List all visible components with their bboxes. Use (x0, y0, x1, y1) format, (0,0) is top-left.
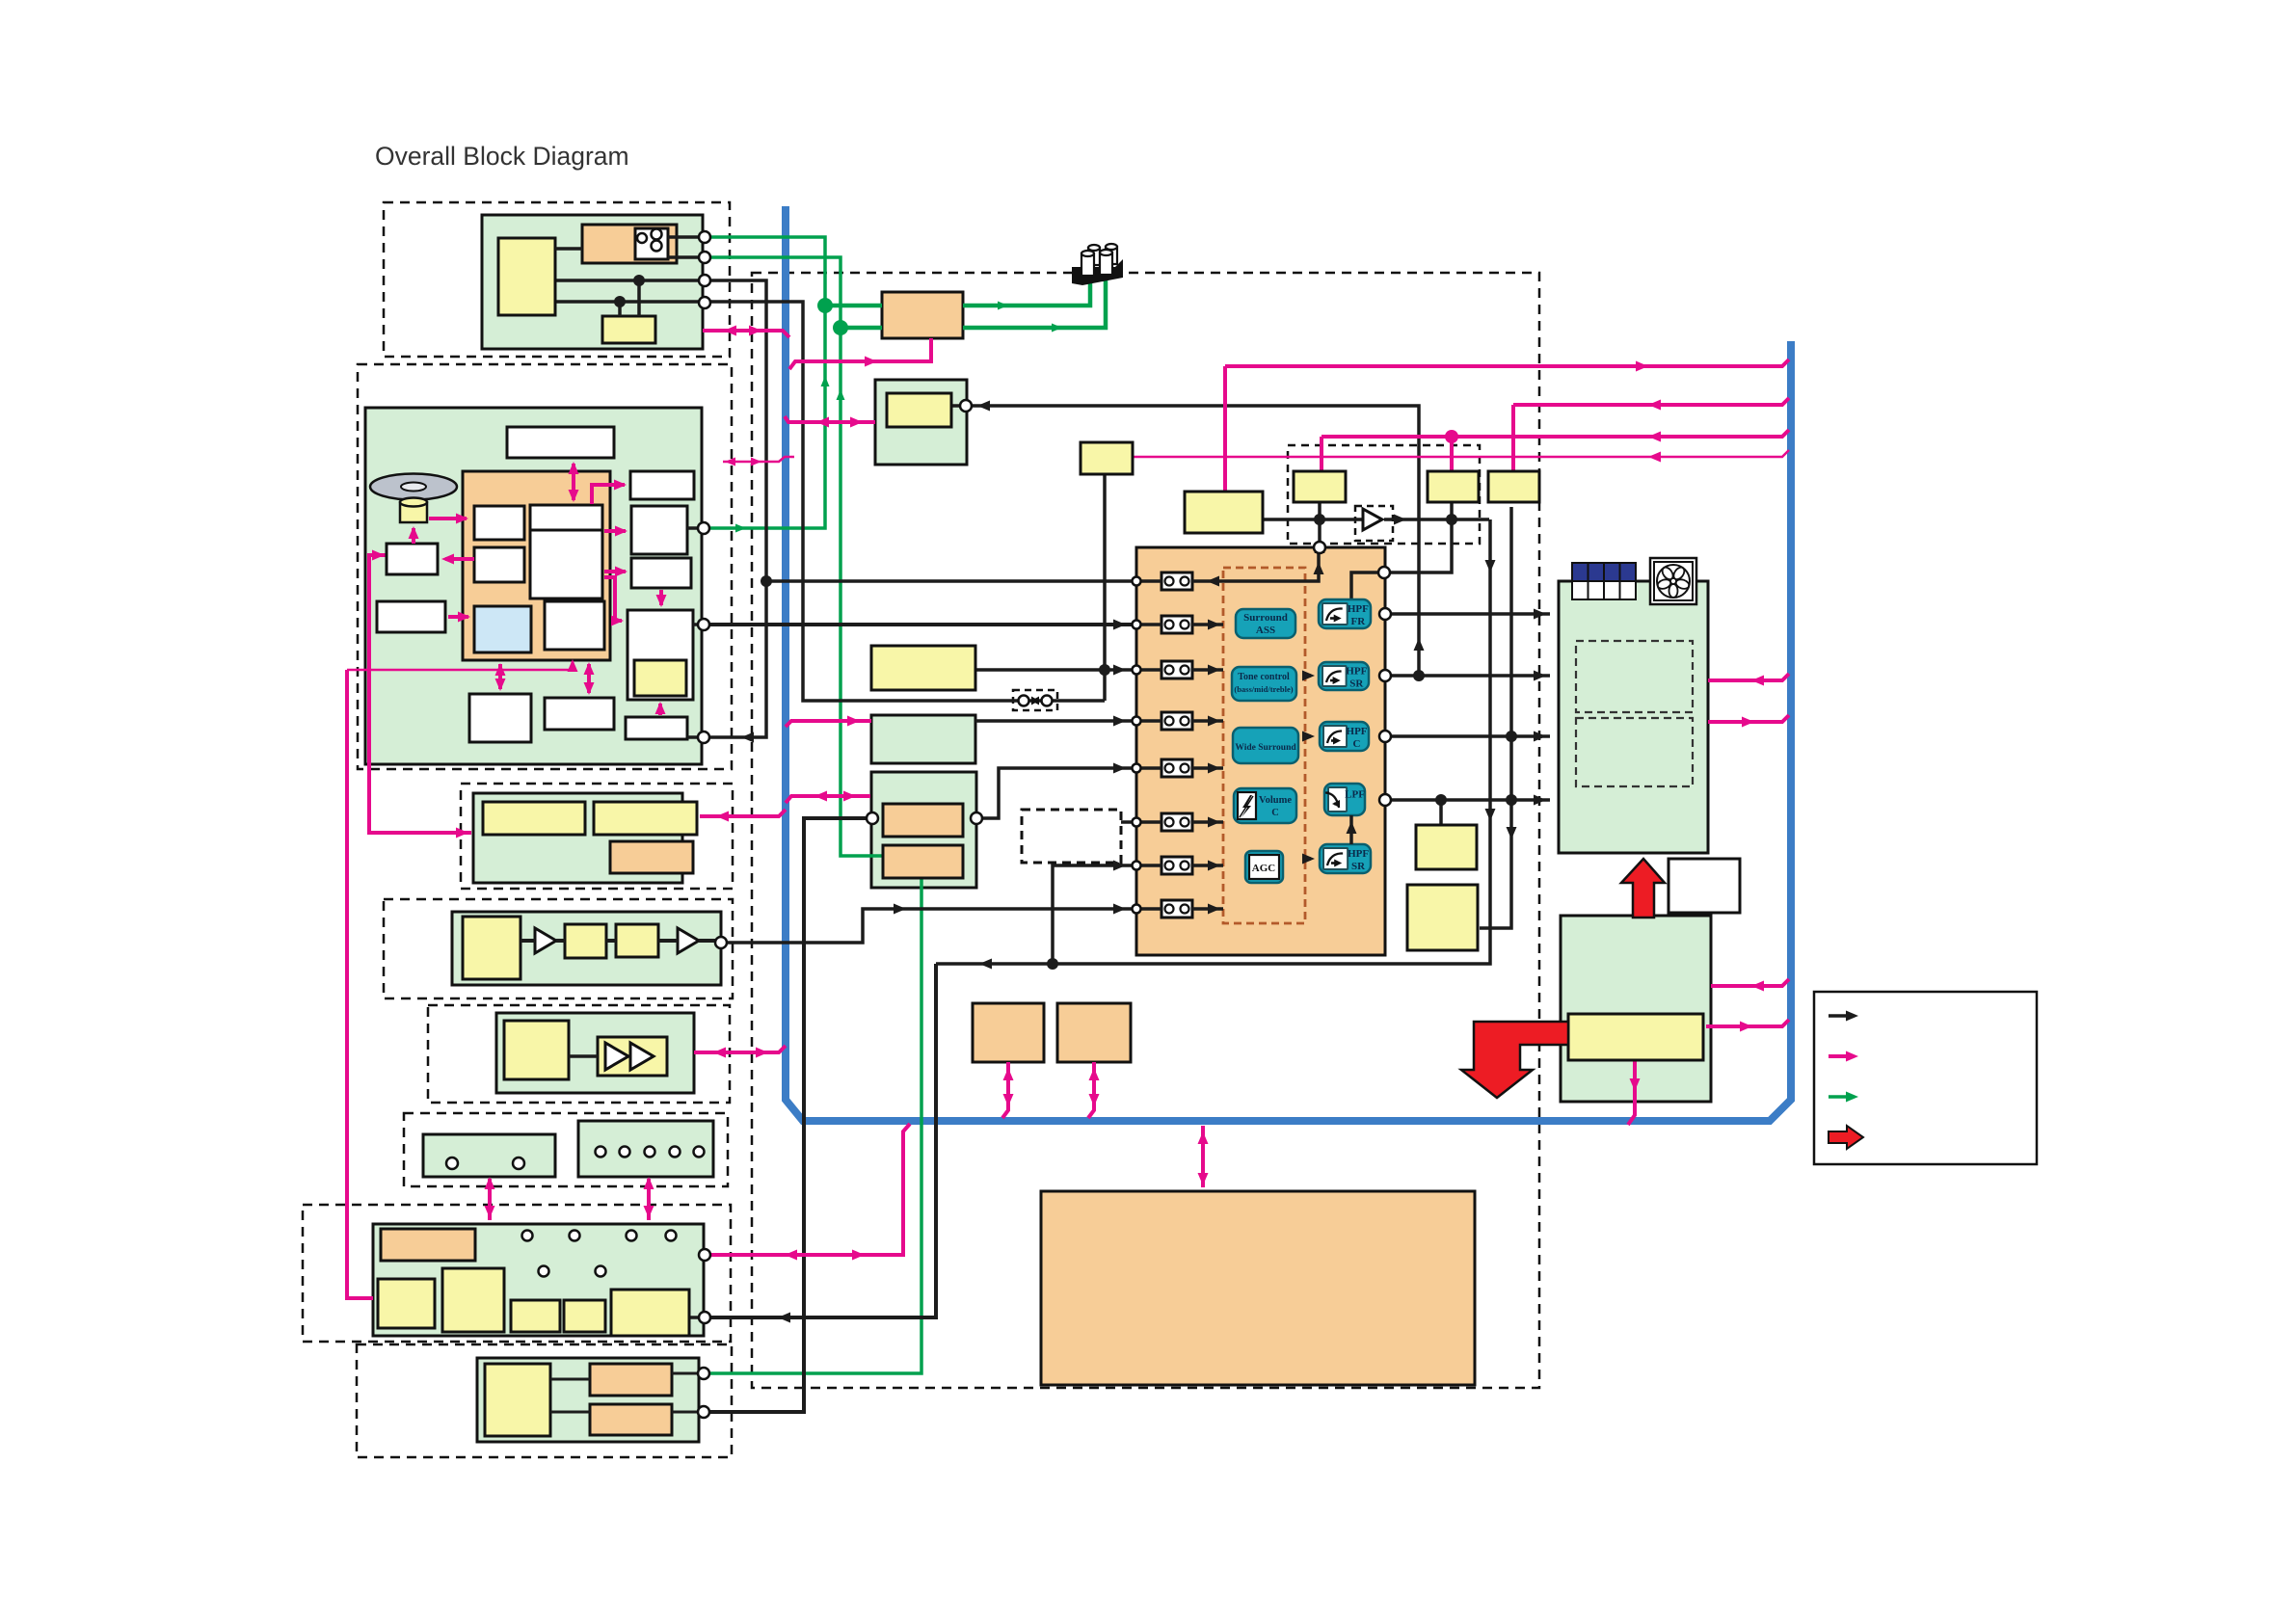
dashed box: DSP internal functions (brown) (1223, 568, 1305, 923)
wire: pink mute control drop 1 (1320, 437, 1323, 471)
box: headphone jack yellow (887, 393, 951, 427)
junction dots (633, 275, 645, 286)
wire: pink bus tap tuner A (786, 721, 871, 727)
arrow: pink decoder to audio DAC elbow (592, 485, 625, 504)
dashed box: amp channel 1 (1576, 641, 1693, 712)
wire: relay to connector 1 (668, 235, 703, 239)
box: standby transformer (yellow) (498, 238, 555, 315)
box: standby relay module (orange) (582, 225, 677, 263)
box: system micom (yellow) (1081, 442, 1133, 474)
wire: black option box row (1121, 820, 1132, 824)
arrowhead: black DVD row into DSP (1113, 620, 1126, 630)
wire: rear jack to conn 1 (672, 1372, 699, 1375)
panel: tuner pack A (green) (871, 715, 975, 763)
panel: tuner pack B (green) (871, 772, 976, 888)
jack: key board B buttons (596, 1147, 606, 1157)
wire: black headphone send line (972, 406, 1419, 676)
wire: black record-out row to DSP (766, 579, 1132, 583)
box: analog in orange (610, 841, 693, 873)
filter: HPF SR 2 (1320, 844, 1371, 873)
box: RF amp (blue) (474, 606, 531, 652)
jack: DSP input row 1 (1161, 572, 1192, 590)
icon: speaker terminal block (1072, 259, 1123, 285)
arrowhead: pink relay control (1648, 400, 1661, 411)
wire: black standby out 1 vertical (555, 280, 766, 737)
wire: pink relay control line (1513, 398, 1789, 405)
arrowhead: black into headphone jack board (977, 401, 990, 412)
wires: CD DSP chain (521, 939, 535, 943)
box: spindle motor (white) (545, 698, 614, 730)
wire: DVD audio DAC stub (687, 526, 698, 530)
wire: system control bus (blue) (786, 206, 1791, 1121)
wire: pink system micom top line (1225, 359, 1789, 366)
box: relay contact detail (white) (635, 228, 668, 259)
arrow: pink pickup to servo (429, 517, 467, 520)
legend: green arrow (1829, 1095, 1851, 1099)
panel: option module A (orange) (973, 1003, 1044, 1062)
wire: black LPF to sub out box (1439, 800, 1443, 825)
box: AV output inner (yellow) (634, 660, 686, 696)
box: tuner pack orange 2 (883, 845, 963, 878)
box: tray control (white) (377, 601, 445, 632)
arrowhead: black tuner B row into DSP (1113, 763, 1126, 774)
arrow: pink decoder to video enc (604, 570, 626, 573)
arrowheads: black feedback line (979, 959, 992, 970)
icon: spindle cylinder (400, 502, 427, 522)
block: Tone control (teal) (1232, 667, 1296, 701)
wire: relay to connector 2 (668, 255, 703, 259)
op-amp: headphone buffer 1 (605, 1043, 628, 1070)
panel: power supply board (green) (1561, 916, 1711, 1102)
block: Surround ASS (teal) (1236, 609, 1295, 638)
dashed enclosure: key input block (404, 1113, 728, 1186)
wire: pink psu bottom drop (1628, 1060, 1635, 1125)
svg-text:ASS: ASS (1256, 625, 1275, 636)
arrow: pink spindle feed (412, 528, 415, 544)
wire: DVD sensor stub (687, 735, 698, 739)
wire: black HPF SR out to amp (1391, 674, 1550, 678)
dashed enclosure: link connector (1013, 690, 1057, 710)
jack: DSP input row 7 (1161, 857, 1192, 874)
connector: headphone jack input (960, 400, 972, 412)
arrowheads: green direction marks (735, 524, 746, 533)
op-amp: CD DSP buffer 2 (678, 928, 699, 953)
box: analog in yellow 1 (483, 802, 585, 835)
wire: standby control stub 1 (637, 280, 641, 316)
jack: DSP input row 2 (1161, 616, 1192, 633)
svg-text:Volume: Volume (1259, 795, 1292, 806)
panel: front display board (green) (373, 1224, 704, 1336)
wire: pink analog input link (700, 810, 786, 816)
box: standby control (yellow) (602, 316, 655, 343)
box: sled motor (white) (469, 694, 531, 742)
box: mech sensor (white) (626, 717, 687, 739)
block: Wide Surround (teal) (1233, 728, 1298, 763)
arrow: pink tray to RF (448, 615, 468, 619)
svg-text:HPF: HPF (1348, 848, 1369, 860)
box: display yellow d (564, 1300, 605, 1332)
panel: power amplifier board (green) (1559, 581, 1708, 853)
dashed enclosure: analog input block (461, 784, 733, 889)
wire: pink digital amp bus link (1201, 1126, 1205, 1187)
dashed enclosure: CD DSP block (384, 899, 733, 998)
arrow: pink into servo bottom (568, 659, 578, 672)
box: display yellow c (511, 1300, 560, 1332)
svg-text:HPF: HPF (1346, 666, 1367, 678)
wire: rear jack to conn 2 (672, 1411, 699, 1414)
box: rear jack orange top (590, 1364, 672, 1396)
jack: front display buttons (522, 1231, 533, 1241)
junction dot: pink mute line (1445, 430, 1458, 443)
wire: pink option B bus link (1088, 1062, 1094, 1118)
filter: HPF FR (1319, 599, 1371, 628)
box: psu regulator (yellow) (1568, 1014, 1703, 1060)
box: fan control (white) (1669, 859, 1740, 913)
filter: HPF C (1320, 722, 1369, 751)
wire: pink bus tap standby (703, 331, 789, 337)
dashed enclosure: option box (1022, 810, 1121, 863)
wire: arrow into HPF SR (1305, 674, 1311, 678)
wire: black HPF C out to amp (1391, 734, 1550, 738)
panel: rear jack board (green) (477, 1358, 699, 1442)
legend: red arrow (1829, 1126, 1863, 1149)
box: sub out yellow B (1407, 885, 1478, 950)
wire: DVD AV out stub (693, 623, 698, 626)
wire: rear jack internal 1 (550, 1378, 590, 1381)
op-amp: mute buffer triangle (1363, 509, 1382, 530)
wire: black standby out 2 vertical (555, 302, 1105, 701)
wire: pink relay control drop (1511, 405, 1515, 471)
svg-text:FR: FR (1351, 616, 1367, 627)
wire: black mute yellow box 3 drop (1390, 502, 1452, 572)
wire: green AC line upper to inlet (825, 304, 882, 308)
box: relay yellow 4 (1488, 471, 1539, 502)
wire: black tuner A out row (975, 668, 1132, 672)
box: CD DSP yellow 2 (565, 924, 606, 958)
connector: DSP top and right (1314, 542, 1325, 553)
arrow: pink sensor to AV out (658, 704, 662, 715)
box: mute yellow 3 (1428, 471, 1479, 502)
arrowhead: black aux row into DSP (1113, 716, 1126, 727)
arrowheads: pink option links (1003, 1068, 1014, 1080)
jack: DSP input row 4 (1161, 712, 1192, 730)
icon: volume lightning box (1238, 792, 1256, 819)
svg-text:Tone control: Tone control (1238, 672, 1290, 682)
icon: red thermal arrow up (1621, 859, 1665, 918)
connector: standby outputs (699, 231, 710, 243)
arrowheads: black CD row (894, 904, 906, 915)
panel: key board A (green) (423, 1134, 555, 1177)
wire: black LPF out to amp (1391, 798, 1550, 802)
wire: pink bus tap headphone amp (694, 1046, 786, 1052)
panel: standby power supply (green) (482, 215, 703, 349)
wire: pink option A bus link (1002, 1062, 1008, 1118)
box: front display orange module (381, 1229, 475, 1261)
arrow: pink label link (double) (572, 464, 575, 500)
wire: pink control front-panel column (347, 670, 373, 1298)
wire: pink mech control down column (369, 555, 471, 833)
dashed enclosure: main board (752, 273, 1539, 1388)
arrowhead: black relay drop down (1507, 827, 1517, 839)
dashed enclosure: rear jack block (357, 1344, 732, 1457)
panel: DVD servo/decoder (orange) (463, 471, 610, 660)
connector: CD DSP output (715, 937, 727, 948)
arrow: key board A pink feed (488, 1179, 492, 1220)
svg-text:LPF: LPF (1345, 789, 1365, 801)
svg-text:Overall Block Diagram: Overall Block Diagram (375, 142, 629, 171)
arrowhead: black micom drop (1315, 541, 1325, 553)
panel: main DSP / sound processor (orange) (1136, 547, 1385, 955)
wire: black front panel link (710, 964, 936, 1317)
arrow: pink decoder to video DAC (604, 529, 626, 533)
arrowheads: pink headphone amp tap (713, 1048, 726, 1058)
box: decoder main (white) (530, 530, 602, 599)
box: loader motor (white) (387, 544, 438, 574)
arrowhead: black mute buffer out (1394, 515, 1406, 525)
arrowheads: pink digital amp link (1198, 1131, 1209, 1144)
svg-text:HPF: HPF (1348, 603, 1369, 615)
wire: black mic in row (1053, 865, 1132, 964)
wire: pink bus tap tuner B (786, 796, 870, 803)
arrowhead: pink analog input link (716, 811, 729, 822)
wire: HPF SR2 to LPF (1349, 815, 1353, 844)
box: headphone amp yellow (504, 1021, 569, 1079)
svg-text:C: C (1271, 808, 1279, 818)
arrow: pink decoder to AV out (604, 577, 622, 621)
jack: DSP input row 3 (1161, 661, 1192, 678)
dashed enclosure: buffer amp (1355, 506, 1393, 541)
icon: cooling fan (1650, 558, 1696, 604)
panel: CD DSP board (green) (452, 912, 721, 985)
svg-text:HPF: HPF (1347, 726, 1368, 737)
box: audio DAC (white) (630, 471, 694, 499)
wire: black CD out row (727, 909, 1132, 943)
wire: black relay box 4 drop line (1480, 507, 1511, 928)
panel: DVD mechanism (green) (365, 408, 702, 764)
wire: pink system micom drop (1223, 366, 1227, 492)
arrowheads: pink front display tap (785, 1250, 797, 1261)
wire: black mute output line (1263, 518, 1363, 521)
box: display yellow a (378, 1279, 435, 1328)
svg-text:AGC: AGC (1252, 863, 1276, 874)
wire: standby control stub 2 (618, 302, 622, 316)
panel: headphone jack board (green) (875, 380, 967, 465)
box: rear jack orange bottom (590, 1404, 672, 1435)
connector: DSP row inputs (1133, 577, 1141, 586)
wire: green AC line lower to inlet (841, 326, 882, 331)
connector: tuner pack edges (867, 812, 878, 824)
arrow: pink servo to loader (445, 557, 474, 561)
box: rear jack yellow (485, 1364, 550, 1436)
box: tuner front-end (yellow) (871, 646, 975, 690)
box: sub out yellow A (1416, 825, 1477, 869)
wire: pink micom link line left (723, 457, 794, 462)
arrow: pink servo-spindle link (double) (587, 664, 591, 693)
arrowheads: pink psu taps (1751, 981, 1764, 992)
wire: black mute yellow box 2 drop (1318, 502, 1322, 547)
wire: pink mute control line (1322, 430, 1789, 437)
icon: DVD disc (370, 474, 457, 500)
arrowhead: black tuner A row into DSP (1113, 665, 1126, 676)
box: tuner pack orange 1 (883, 804, 963, 837)
panel: analog input board (green) (473, 793, 682, 883)
arrowhead: pink AC tap (865, 357, 877, 367)
arrowheads: black amp feeds (1534, 609, 1546, 620)
wire: black DVD audio out row (709, 623, 1132, 626)
box: headphone driver (yellow) (598, 1037, 667, 1076)
wire: black tuner B out row (978, 768, 1132, 818)
wire: black tuner pack B to rear jacks (710, 818, 868, 1412)
arrowhead: pink mute control (1648, 432, 1661, 442)
icon: red AC arrow down-left (1461, 1022, 1568, 1098)
panel: headphone amp board (green) (496, 1013, 694, 1093)
box: display yellow b (442, 1268, 504, 1332)
wire: green digital audio 1 (standby to CD out) (705, 237, 825, 528)
wire: pink bus tap front display (705, 1124, 910, 1255)
connector: front display outputs (699, 1249, 710, 1261)
wire: black HPF FR input feed (1351, 572, 1378, 599)
box: DVD mech label (white) (507, 427, 614, 458)
arrow: pink video enc to AV out (659, 590, 663, 605)
wire: headphone chain (569, 1054, 598, 1058)
legend: pink arrow (1829, 1054, 1851, 1058)
box: decoder top (white) (530, 505, 602, 530)
wire: black HPF FR out to amp (1391, 612, 1550, 616)
box: servo block B (white) (474, 547, 524, 582)
wire: pink bus tap AC box (789, 338, 931, 369)
legend: black arrow (1829, 1014, 1851, 1018)
panel: digital amp block (orange) (1041, 1191, 1475, 1385)
svg-text:Wide Surround: Wide Surround (1235, 743, 1296, 753)
box: mech driver (white) (545, 601, 604, 650)
arrowhead: black front panel link (778, 1313, 790, 1323)
box: main micom (yellow) (1185, 492, 1263, 533)
wire: pink psu tap 2 (1706, 1020, 1789, 1026)
wire: pink power amp tap 2 (1708, 715, 1789, 722)
arrowhead: pink into analog board (456, 828, 468, 838)
arrowheads: pink standby bus tap (724, 326, 736, 336)
arrowhead: black headphone send up (1414, 638, 1425, 651)
connector: DVD mech outputs (698, 522, 709, 534)
arrowheads: pink tuner B tap (814, 791, 827, 802)
box: servo block A (white) (474, 506, 524, 540)
box: AV output (white) (627, 610, 693, 700)
wire: pink control to servo micom (347, 661, 573, 670)
dashed enclosure: mute circuit (1288, 445, 1480, 544)
arrowhead: pink micom top line (1636, 361, 1648, 372)
filter: LPF (1324, 784, 1365, 815)
op-amp: CD DSP buffer 1 (535, 928, 556, 953)
arrowheads: pink micom link (725, 458, 735, 466)
dashed enclosure: standby/power block (384, 202, 730, 357)
svg-text:Surround: Surround (1243, 612, 1288, 624)
wire: black DSP feedback line bottom (936, 519, 1490, 964)
jack: DSP input row 5 (1161, 759, 1192, 777)
box: analog in yellow 2 (594, 802, 697, 835)
wire: arrow into HPF SR2 (1305, 857, 1311, 861)
arrowhead: pink psu drop (1630, 1078, 1641, 1091)
wire: green digital audio 2 (standby to tuner) (705, 257, 883, 856)
wire: transformer to relay (555, 247, 582, 251)
wire: black mute output continued (1384, 518, 1489, 521)
wire: green AC to speaker terminal upper (963, 280, 1090, 306)
box: video enc (white) (631, 558, 691, 588)
panel: key board B (green) (578, 1121, 713, 1177)
panel: option module B (orange) (1057, 1003, 1131, 1062)
dashed box: amp channel 2 (1576, 718, 1693, 786)
arrow: pink servo-sled link (double) (498, 664, 502, 689)
dashed enclosure: headphone amp block (428, 1005, 730, 1103)
wire: rear jack internal 2 (550, 1411, 590, 1414)
jack: DSP input row 6 (1161, 813, 1192, 831)
arrowhead: black into DVD block (741, 732, 754, 743)
panel: AC inlet box (orange) (882, 292, 963, 338)
box: CD DSP yellow main (463, 917, 521, 979)
wire: green rear jack digital line (708, 873, 921, 1373)
box: CD DSP yellow 3 (616, 924, 658, 957)
jack: DSP input row 8 (1161, 900, 1192, 918)
panel: legend box (1814, 992, 2037, 1164)
arrowhead: pink tuner A tap (847, 716, 860, 727)
wire: display yellow e stub (689, 1316, 699, 1319)
block: Volume C (teal) (1234, 788, 1296, 823)
icon: relay contacts in standby block (637, 233, 647, 243)
arrow: key board B pink feed (647, 1179, 651, 1220)
op-amp: headphone buffer 2 (630, 1043, 654, 1070)
svg-text:SR: SR (1349, 678, 1364, 690)
wire: arrow into HPF C (1305, 734, 1311, 738)
svg-text:C: C (1353, 738, 1361, 750)
box: display yellow e (611, 1290, 689, 1336)
dashed enclosure: DVD mechanism block (358, 364, 732, 769)
jack: link connector circles (1019, 696, 1029, 706)
box: mute yellow 2 (1294, 471, 1346, 502)
wire: pink mute control drop 2 (1450, 437, 1454, 471)
connector: rear jack outputs (698, 1368, 709, 1379)
jack: key board A buttons (446, 1157, 458, 1169)
svg-text:SR: SR (1351, 861, 1366, 872)
wire: green AC to speaker terminal lower (963, 280, 1106, 328)
arrowheads: pink amp taps (1751, 676, 1764, 686)
wire: headphone yellow stub (951, 404, 962, 408)
wire: pink power amp tap 1 (1708, 674, 1789, 680)
wire: pink bus tap headphone jack (785, 416, 875, 422)
arrowheads: pink headphone jack tap (816, 417, 829, 428)
icon: amp connector cells (1572, 563, 1589, 581)
wire: black tuner pack vertical from yellow box (1103, 474, 1107, 701)
dashed enclosure: front panel block (303, 1205, 731, 1342)
box: video DAC (white) (631, 506, 687, 554)
svg-text:(bass/mid/treble): (bass/mid/treble) (1234, 684, 1293, 694)
arrowhead: black mic row into DSP (1113, 861, 1126, 871)
filter: HPF SR (1319, 662, 1369, 690)
wire: pink micom link line right (1133, 450, 1789, 457)
wire: pink psu tap 1 (1711, 979, 1789, 986)
wire: black aux in row (975, 719, 1132, 723)
block: AGC (teal) (1245, 851, 1283, 883)
